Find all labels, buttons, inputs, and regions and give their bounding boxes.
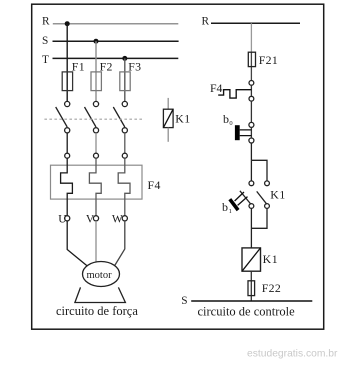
svg-text:V: V <box>86 213 95 225</box>
svg-text:F4: F4 <box>148 178 161 192</box>
svg-text:F1: F1 <box>72 60 85 74</box>
svg-text:estudegratis.com.br: estudegratis.com.br <box>247 349 338 360</box>
svg-text:K1: K1 <box>270 187 286 201</box>
svg-text:T: T <box>42 54 49 66</box>
svg-text:F21: F21 <box>259 53 278 67</box>
svg-text:W: W <box>112 213 123 225</box>
svg-text:S: S <box>42 35 48 47</box>
svg-text:F3: F3 <box>128 60 141 74</box>
svg-text:R: R <box>202 15 210 27</box>
svg-text:motor: motor <box>87 270 113 281</box>
svg-text:F22: F22 <box>262 281 281 295</box>
svg-text:circuito de controle: circuito de controle <box>198 304 296 318</box>
svg-text:U: U <box>58 213 67 225</box>
svg-text:R: R <box>42 15 50 27</box>
svg-text:F2: F2 <box>100 60 113 74</box>
svg-text:0: 0 <box>229 120 232 127</box>
svg-text:F4: F4 <box>210 81 223 95</box>
svg-text:S: S <box>181 295 187 307</box>
svg-text:circuito de força: circuito de força <box>56 304 138 318</box>
svg-text:K1: K1 <box>175 112 191 126</box>
svg-text:K1: K1 <box>263 252 279 266</box>
svg-text:b: b <box>222 200 228 214</box>
svg-text:1: 1 <box>229 208 232 215</box>
svg-text:b: b <box>223 112 229 126</box>
